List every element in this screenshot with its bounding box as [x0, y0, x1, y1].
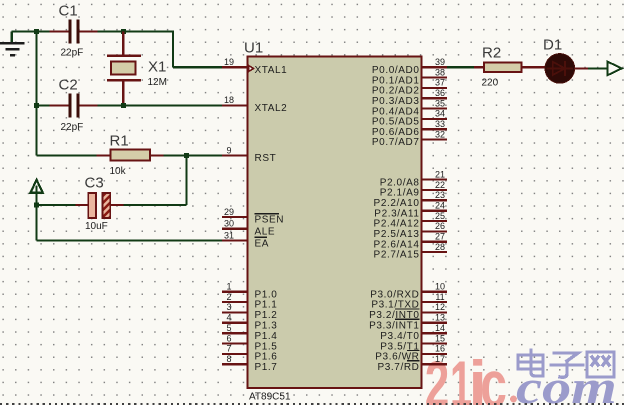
svg-text:11: 11	[435, 292, 444, 302]
wire P0.0 to R2	[447, 66, 474, 68]
svg-text:c: c	[480, 349, 507, 405]
pin 28 (P2.7/A15)	[374, 242, 447, 261]
svg-text:PSEN: PSEN	[255, 215, 285, 226]
svg-text:AT89C51: AT89C51	[249, 392, 291, 403]
svg-text:35: 35	[435, 98, 445, 108]
svg-text:27: 27	[435, 232, 445, 242]
pin 27 (P2.6/A14)	[374, 232, 447, 251]
svg-text:C1: C1	[59, 3, 78, 20]
junction C2 bus	[34, 103, 39, 108]
pin 17 (P3.7/RD)	[378, 354, 448, 373]
pin 16 (P3.6/WR)	[375, 344, 447, 363]
pin 24 (P2.3/A11)	[374, 201, 447, 220]
pin 5 (P1.4)	[222, 323, 277, 342]
wire bus to C3	[36, 204, 75, 206]
svg-text:EA: EA	[255, 238, 270, 249]
pin 23 (P2.2/A10)	[374, 190, 447, 209]
svg-text:U1: U1	[244, 40, 263, 57]
capacitor C2	[50, 93, 98, 117]
svg-text:P0.3/AD3: P0.3/AD3	[372, 96, 420, 107]
pin 35 (P0.4/AD4)	[372, 98, 447, 117]
pin 37 (P0.2/AD2)	[372, 78, 447, 97]
svg-text:P2.4/A12: P2.4/A12	[374, 219, 420, 230]
sheet border dashed bottom	[0, 403, 624, 405]
wire RST node down to C3 row	[185, 156, 187, 206]
svg-text:37: 37	[435, 78, 445, 88]
svg-text:C2: C2	[59, 77, 78, 94]
svg-text:P1.6: P1.6	[255, 352, 278, 363]
svg-text:P1.1: P1.1	[255, 300, 278, 311]
svg-text:1: 1	[226, 282, 231, 292]
svg-text:28: 28	[435, 242, 445, 252]
output terminal arrow	[608, 62, 622, 76]
svg-text:7: 7	[226, 344, 231, 354]
pin 15 (P3.5/T1)	[380, 333, 447, 352]
watermark char dian	[518, 350, 543, 376]
junction C3 bus	[34, 202, 39, 207]
watermark 21ic	[425, 347, 507, 410]
pin 30 (ALE)	[222, 219, 275, 238]
svg-text:31: 31	[224, 230, 234, 240]
svg-text:22: 22	[435, 180, 445, 190]
svg-text:19: 19	[224, 57, 234, 67]
resistor R2	[474, 62, 545, 72]
wire bus down to EA row	[35, 205, 37, 241]
svg-text:P1.3: P1.3	[255, 321, 278, 332]
pin 3 (P1.2)	[222, 302, 277, 321]
pin 38 (P0.1/AD1)	[372, 67, 447, 86]
svg-text:D1: D1	[543, 37, 562, 54]
svg-text:P1.2: P1.2	[255, 310, 278, 321]
watermark char zi	[551, 353, 583, 377]
watermark dot	[510, 396, 517, 403]
pin 14 (P3.4/T0)	[380, 323, 447, 342]
svg-text:26: 26	[435, 221, 445, 231]
svg-text:22pF: 22pF	[61, 122, 84, 133]
svg-text:com: com	[516, 360, 617, 405]
wire to EA pin31	[36, 240, 222, 242]
watermark char wang	[587, 352, 614, 377]
wire bus to C2	[36, 104, 49, 106]
pin 19 (XTAL1)	[222, 57, 287, 76]
pin 29 (PSEN)	[222, 207, 284, 226]
pin 1 (P1.0)	[222, 282, 277, 301]
crystal X1	[107, 32, 141, 106]
pin 7 (P1.6)	[222, 344, 277, 363]
svg-text:30: 30	[224, 219, 234, 229]
wire left bus vertical	[35, 32, 37, 156]
svg-text:25: 25	[435, 211, 445, 221]
svg-text:18: 18	[224, 95, 234, 105]
pin 32 (P0.7/AD7)	[372, 129, 447, 148]
svg-text:P2.2/A10: P2.2/A10	[374, 198, 420, 209]
pin 39 (P0.0/AD0)	[372, 57, 447, 76]
pin 10 (P3.0/RXD)	[370, 282, 447, 301]
pin 33 (P0.6/AD6)	[372, 119, 447, 138]
pin 31 (EA)	[222, 230, 269, 249]
svg-text:2: 2	[226, 292, 231, 302]
svg-text:10: 10	[435, 282, 445, 292]
pin 4 (P1.3)	[222, 313, 277, 332]
svg-text:P2.7/A15: P2.7/A15	[374, 250, 420, 261]
svg-text:4: 4	[226, 313, 231, 323]
pin 13 (P3.3/INT1)	[369, 313, 447, 332]
svg-text:36: 36	[435, 88, 445, 98]
svg-text:C3: C3	[85, 175, 104, 192]
junction top-left	[34, 29, 39, 34]
pin 11 (P3.1/TXD)	[371, 292, 447, 311]
XTAL1 clock arrow	[249, 65, 254, 71]
wire R1 to RST	[164, 154, 223, 156]
wire C3 to RST node	[124, 204, 187, 206]
svg-text:P0.7/AD7: P0.7/AD7	[372, 137, 420, 148]
svg-text:P3.4/T0: P3.4/T0	[380, 331, 419, 342]
svg-text:10k: 10k	[110, 166, 127, 177]
svg-text:34: 34	[435, 109, 445, 119]
svg-text:12M: 12M	[148, 77, 167, 88]
pin 34 (P0.5/AD5)	[372, 109, 447, 128]
svg-text:X1: X1	[148, 59, 166, 76]
op chip U1 AT89C51 body	[248, 57, 422, 389]
svg-text:12: 12	[435, 302, 445, 312]
svg-text:P1.4: P1.4	[255, 331, 278, 342]
pin 25 (P2.4/A12)	[374, 211, 447, 230]
svg-text:33: 33	[435, 119, 445, 129]
svg-text:8: 8	[226, 354, 231, 364]
resistor R1	[36, 149, 163, 160]
pin 18 (XTAL2)	[222, 95, 287, 114]
junction crystal top	[121, 29, 126, 34]
svg-text:22pF: 22pF	[61, 48, 84, 59]
capacitor C1	[50, 20, 98, 44]
svg-text:17: 17	[435, 354, 445, 364]
power terminal arrow	[30, 180, 42, 205]
svg-text:P3.7/RD: P3.7/RD	[378, 362, 420, 373]
svg-text:5: 5	[226, 323, 231, 333]
svg-text:R2: R2	[482, 45, 501, 62]
junction RST node	[184, 153, 189, 158]
svg-text:XTAL2: XTAL2	[255, 103, 288, 114]
svg-text:29: 29	[224, 207, 234, 217]
svg-text:10uF: 10uF	[85, 221, 108, 232]
junction crystal bottom	[121, 103, 126, 108]
pin 6 (P1.5)	[222, 333, 277, 352]
pin 26 (P2.5/A13)	[374, 221, 447, 240]
pin 12 (P3.2/INT0)	[369, 302, 447, 321]
wire crystal node to XTAL1	[173, 30, 222, 67]
svg-text:P2.0/A8: P2.0/A8	[380, 177, 420, 188]
wire ground to C1	[12, 30, 50, 32]
svg-text:XTAL1: XTAL1	[255, 65, 288, 76]
svg-text:32: 32	[435, 129, 445, 139]
pin 22 (P2.1/A9)	[380, 180, 447, 199]
ground	[0, 32, 25, 56]
svg-text:24: 24	[435, 201, 445, 211]
svg-text:21: 21	[435, 169, 445, 179]
svg-text:38: 38	[435, 67, 445, 77]
pin 8 (P1.7)	[222, 354, 277, 373]
svg-text:P1.7: P1.7	[255, 362, 278, 373]
svg-text:ALE: ALE	[255, 227, 276, 238]
watermark com	[516, 360, 617, 410]
svg-text:P3.3/INT1: P3.3/INT1	[369, 321, 419, 332]
svg-text:39: 39	[435, 57, 445, 67]
svg-text:23: 23	[435, 190, 445, 200]
pin 2 (P1.1)	[222, 292, 277, 311]
svg-text:9: 9	[226, 145, 231, 155]
svg-text:RST: RST	[255, 153, 277, 164]
svg-text:3: 3	[226, 302, 231, 312]
svg-text:15: 15	[435, 333, 445, 343]
pin 36 (P0.3/AD3)	[372, 88, 447, 107]
wire C1 to crystal node	[98, 30, 173, 32]
svg-text:220: 220	[482, 78, 499, 89]
svg-text:6: 6	[226, 333, 231, 343]
capacitor C3 (electrolytic)	[75, 193, 123, 218]
svg-text:14: 14	[435, 323, 445, 333]
wire LED to output terminal	[575, 67, 608, 69]
svg-text:R1: R1	[110, 133, 129, 150]
pin 21 (P2.0/A8)	[380, 169, 447, 188]
LED D1	[545, 54, 575, 84]
svg-text:13: 13	[435, 313, 445, 323]
wire C2 to XTAL2	[98, 104, 222, 106]
svg-text:16: 16	[435, 344, 445, 354]
pin 9 (RST)	[222, 145, 276, 164]
